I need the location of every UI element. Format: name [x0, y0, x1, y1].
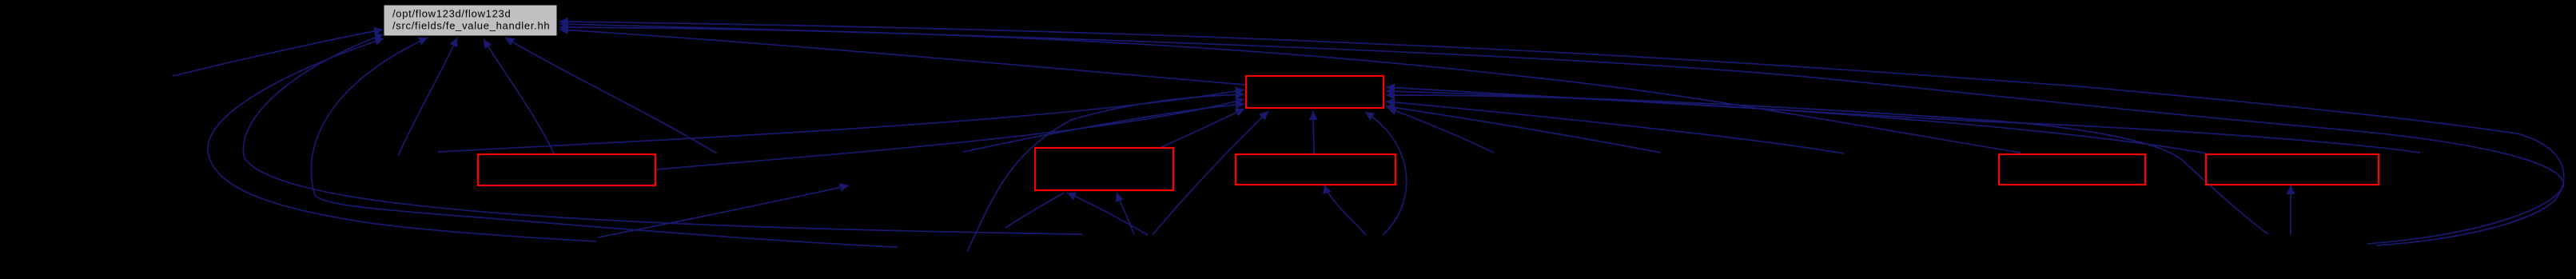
- wire W7: edge from invisible node N0 to title bottom: [505, 38, 717, 153]
- wire W1: edge from upper-left node into title left: [173, 30, 383, 76]
- wire W31: edge from far-right node to node B right: [1386, 87, 2420, 153]
- wire W18: edge from node H2 to node B bottom: [1365, 112, 1407, 235]
- node E: red box: [1999, 154, 2145, 185]
- wire W17: vertical edge from node D to node B bottom: [1313, 111, 1314, 153]
- svg-text:/src/fields/fe_value_handler.h: /src/fields/fe_value_handler.hh: [392, 20, 550, 32]
- wire W28: vertical edge from node G to node F bottom: [2290, 185, 2291, 235]
- wire W20: edge from invisible node N3 to node B right: [1386, 102, 1844, 153]
- svg-text:/opt/flow123d/flow123d: /opt/flow123d/flow123d: [392, 8, 511, 20]
- node F: red box: [2206, 154, 2379, 185]
- node T: main grey node /opt/flow123d/flow123d/src/fields/fe_value_handler.hh: [384, 5, 557, 36]
- wire W23: edge from bottom node G through gap to node B right: [1386, 95, 2268, 234]
- wire W25: edge from node H1 to node C bottom: [1117, 193, 1134, 235]
- wire W15: edge from bottom node H0 to node B left: [967, 94, 1244, 252]
- wire W22: edge from node F top to node B right: [1386, 91, 2207, 153]
- node C: red box (two-line): [1035, 148, 1173, 190]
- wire W2: long bottom arc from node H1 to title left: [243, 34, 1082, 234]
- wire W19: edge from invisible node N2 to node B right: [1386, 106, 1661, 153]
- wire W27: edge from node H2 to node D bottom: [1324, 185, 1366, 235]
- wire W4: inner bottom arc into title bottom-left corner: [311, 38, 898, 247]
- node A: red box: [478, 154, 655, 185]
- wire W10: edge from node B left to title right: [559, 30, 1245, 85]
- wire W9b: inner loop from node G into title right: [559, 24, 2563, 244]
- wire W12: edge from invisible node left of A to node B left: [438, 90, 1244, 152]
- wire W6: edge from invisible node to title bottom: [398, 38, 457, 156]
- wire W14: edge from node C top to node B left: [1161, 109, 1244, 147]
- wire W34: edge from invisible node N1 to node B left: [963, 104, 1244, 152]
- wire W33: edge from invisible node N1b to node B right: [1388, 108, 1494, 153]
- wire W9: giant outer loop from bottom-right node G around right side into title right: [559, 22, 2564, 245]
- wire W29: edge from node HL to invisible node N1 left: [598, 185, 849, 237]
- wire W24: edge from node H1 to node C bottom: [1067, 193, 1148, 235]
- node D: red box: [1236, 154, 1395, 185]
- wire W13: edge from node A right to node B left: [656, 99, 1244, 169]
- wire W16: edge from node H1 to node B bottom: [1153, 111, 1268, 235]
- node B: red box (hub): [1246, 76, 1384, 108]
- wire W26: merging line from junction into node C bottom: [1005, 193, 1064, 228]
- wire W5: edge from node A top to title bottom: [484, 39, 554, 153]
- wire W3: long bottom arc from node H0 to title left: [208, 38, 596, 241]
- wire W30: edge from node E top to title right: [559, 27, 2021, 153]
